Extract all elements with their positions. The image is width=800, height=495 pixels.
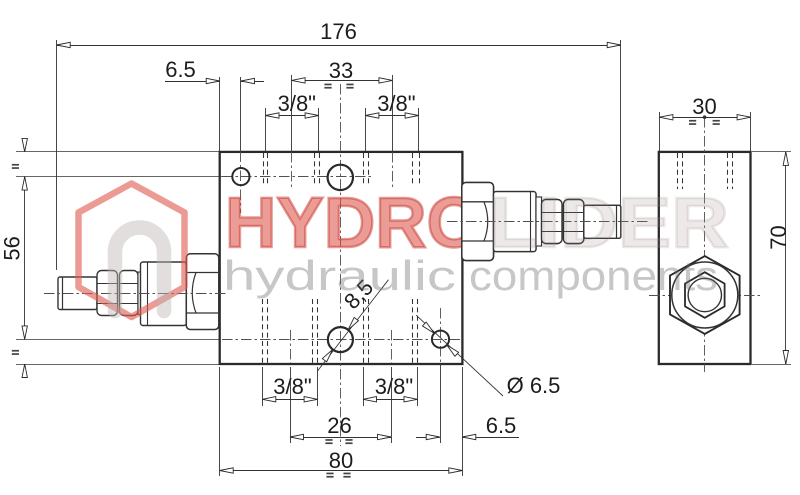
svg-text:Ø 6.5: Ø 6.5 xyxy=(507,373,561,398)
right fitting centerline xyxy=(447,221,650,223)
watermark logo H emblem xyxy=(115,228,164,312)
right fitting nut 2 xyxy=(564,200,584,244)
vertical centerline bottom-right hole xyxy=(440,308,442,364)
vertical centerline main (through big holes) xyxy=(340,84,342,446)
side view block xyxy=(659,152,751,364)
bottom-right mounting hole 6.5 xyxy=(432,331,449,348)
hex plug inner circle xyxy=(688,278,721,311)
watermark logo house outline xyxy=(79,184,185,318)
top-center hole 8.5 xyxy=(328,165,353,190)
leader and label 8,5 xyxy=(318,280,389,371)
side view horizontal centerline xyxy=(649,295,760,297)
right fitting nut 1 xyxy=(542,200,563,244)
bottom-center hole 8.5 xyxy=(328,327,353,352)
side view vertical centerline xyxy=(704,117,706,372)
side view port thread dashed lines xyxy=(677,153,679,189)
svg-text:26: 26 xyxy=(327,413,351,438)
horizontal centerline through top holes xyxy=(222,176,372,178)
svg-text:3/8": 3/8" xyxy=(375,374,413,399)
leader and label diameter 6.5 xyxy=(416,315,503,396)
dimension 3/8" top-right xyxy=(365,108,367,151)
svg-text:80: 80 xyxy=(329,448,353,473)
main valve body front view xyxy=(220,152,463,364)
hex plug chamfer circle xyxy=(672,262,738,328)
dimension 30 side view xyxy=(659,112,661,151)
bottom port A thread dashed lines xyxy=(262,299,264,363)
horizontal centerline through bottom holes xyxy=(222,339,460,341)
right fitting body xyxy=(494,192,537,252)
vertical centerline top-left hole xyxy=(240,77,242,152)
svg-text:70: 70 xyxy=(766,225,791,249)
svg-text:30: 30 xyxy=(692,94,716,119)
dimension 33 top xyxy=(291,75,293,152)
right fitting hex xyxy=(462,183,494,261)
left fitting nut 2 xyxy=(120,271,139,316)
equal marks 30 xyxy=(689,120,696,122)
equal mark left top xyxy=(12,164,19,166)
vertical centerline top port1 xyxy=(291,152,293,190)
right fitting hex xyxy=(462,183,494,261)
right fitting centerline xyxy=(447,221,650,223)
dimension 26 bottom xyxy=(290,367,292,443)
svg-text:hydraulic: hydraulic xyxy=(223,252,456,299)
right hex middle face arc xyxy=(484,202,488,241)
vertical centerline bottom port B xyxy=(391,330,393,363)
hex plug inner socket hexagon xyxy=(685,272,725,318)
right fitting stem xyxy=(584,205,621,238)
svg-text:3/8": 3/8" xyxy=(278,91,316,116)
svg-text:56: 56 xyxy=(0,236,25,260)
right fitting nut 2 xyxy=(564,200,584,244)
right fitting body xyxy=(494,192,537,252)
left fitting hex xyxy=(186,254,219,330)
equal mark left bottom xyxy=(12,350,19,352)
dimension 6.5 bottom-right xyxy=(462,367,464,476)
left hex middle face arc xyxy=(192,273,196,314)
right fitting stem xyxy=(584,205,621,238)
top-left mounting hole xyxy=(232,168,249,185)
dimension 6.5 top-left xyxy=(219,77,221,151)
right fitting washer xyxy=(536,197,542,246)
equal marks 33 xyxy=(324,84,331,86)
svg-text:6.5: 6.5 xyxy=(165,57,196,82)
bottom port B thread dashed lines xyxy=(363,299,365,363)
left fitting washer xyxy=(138,272,141,315)
hex plug outer hexagon xyxy=(670,256,740,334)
dimension 3/8" bottom-left xyxy=(262,367,264,406)
left fitting stem xyxy=(58,277,97,310)
right hex middle face arc xyxy=(484,202,488,241)
dimension 70 side view right xyxy=(752,151,791,153)
dimension 80 bottom xyxy=(219,367,221,476)
top port 2 thread dashed lines xyxy=(363,153,365,185)
left fitting body xyxy=(141,262,187,326)
svg-text:6.5: 6.5 xyxy=(486,413,517,438)
vertical centerline top port2 xyxy=(392,152,394,190)
dimension 176 top xyxy=(56,40,58,270)
left fitting nut 1 xyxy=(97,271,118,316)
svg-text:3/8": 3/8" xyxy=(273,374,311,399)
right fitting washer xyxy=(536,197,542,246)
left fitting centerline xyxy=(44,293,228,295)
dimension 3/8" top-left xyxy=(265,108,267,151)
svg-text:33: 33 xyxy=(329,58,353,83)
vertical centerline bottom port A xyxy=(290,330,292,363)
svg-text:components: components xyxy=(469,252,718,299)
dimension 3/8" bottom-right xyxy=(363,367,365,406)
top port 1 thread dashed lines xyxy=(263,153,265,185)
svg-text:176: 176 xyxy=(320,19,357,44)
right fitting nut 1 xyxy=(542,200,563,244)
dimension 56 left xyxy=(16,151,219,153)
svg-text:3/8": 3/8" xyxy=(377,91,415,116)
